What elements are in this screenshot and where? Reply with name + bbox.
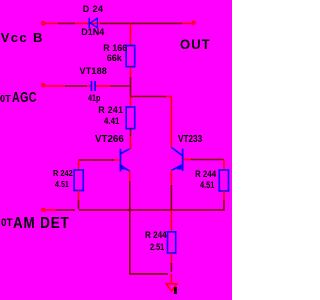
wire	[46, 85, 66, 87]
wire	[78, 191, 80, 201]
ground	[166, 284, 177, 291]
wire	[223, 191, 225, 200]
wire R1 top lead	[130, 23, 132, 45]
capacitor C1	[91, 81, 96, 91]
net Vcc B	[1, 30, 44, 45]
label C1 name	[80, 66, 108, 76]
label R2	[98, 105, 123, 115]
terminal AGC	[42, 84, 45, 87]
wire R4 top lead	[170, 210, 172, 232]
wire Q2 base	[183, 159, 191, 161]
label R5	[53, 168, 73, 178]
wire	[56, 209, 75, 211]
terminal Vcc B	[42, 22, 45, 25]
wire AM DET long	[79, 209, 224, 211]
wire mid horizontal	[131, 96, 167, 98]
label R3	[195, 169, 216, 179]
wire	[130, 136, 132, 149]
wire Q1 base	[79, 159, 115, 161]
terminal AM DET	[42, 209, 45, 212]
net 0T AGC small	[0, 94, 10, 105]
wire	[114, 159, 120, 161]
wire	[130, 77, 132, 97]
transistor Q2	[171, 147, 183, 171]
wire	[129, 181, 131, 275]
label R1	[103, 43, 127, 53]
wire	[191, 159, 224, 161]
resistor R5	[74, 170, 83, 191]
wire	[75, 22, 100, 24]
wire	[223, 200, 225, 210]
label OUT	[180, 36, 211, 52]
wire	[170, 274, 172, 284]
wire Q1 emitter lead	[129, 171, 131, 181]
label R4	[145, 230, 167, 240]
net 0T AM DET small	[1, 217, 13, 229]
net 0 ground	[174, 287, 177, 294]
value C1	[88, 93, 100, 103]
label Q1	[95, 133, 124, 145]
label D2	[83, 4, 104, 14]
wire bottom horizontal	[130, 273, 168, 275]
value R5	[55, 179, 69, 189]
label D1N4	[81, 27, 104, 37]
wire Q2 collector lead	[170, 97, 172, 148]
wire	[78, 200, 80, 209]
wire	[65, 85, 87, 87]
wire	[170, 185, 172, 210]
wire Q2 emitter lead	[170, 170, 172, 185]
value R3	[200, 180, 214, 190]
wire	[46, 22, 59, 24]
wire	[182, 22, 192, 24]
wire	[46, 209, 57, 211]
wire	[130, 67, 132, 77]
resistor R2	[126, 107, 135, 129]
net AM DET	[13, 215, 70, 233]
wire	[110, 85, 131, 87]
wire	[96, 85, 110, 87]
wire	[170, 253, 172, 263]
wire	[87, 85, 91, 87]
value R4	[150, 242, 164, 252]
wire	[170, 263, 172, 272]
wire	[130, 129, 132, 136]
wire	[100, 22, 182, 24]
transistor Q1	[120, 149, 130, 172]
value R1	[107, 53, 122, 63]
wire R3 top lead	[223, 160, 225, 171]
wire	[166, 96, 171, 98]
wire node to R2	[130, 96, 132, 107]
diode D2	[89, 18, 97, 28]
resistor R1	[126, 46, 135, 67]
label Q2	[178, 133, 202, 145]
wire R5 top lead	[78, 160, 80, 170]
terminal OUT	[192, 21, 195, 24]
net AGC	[12, 90, 37, 106]
wire	[58, 22, 75, 24]
resistor R4	[168, 232, 176, 253]
value R2	[104, 116, 119, 126]
resistor R3	[219, 170, 228, 191]
